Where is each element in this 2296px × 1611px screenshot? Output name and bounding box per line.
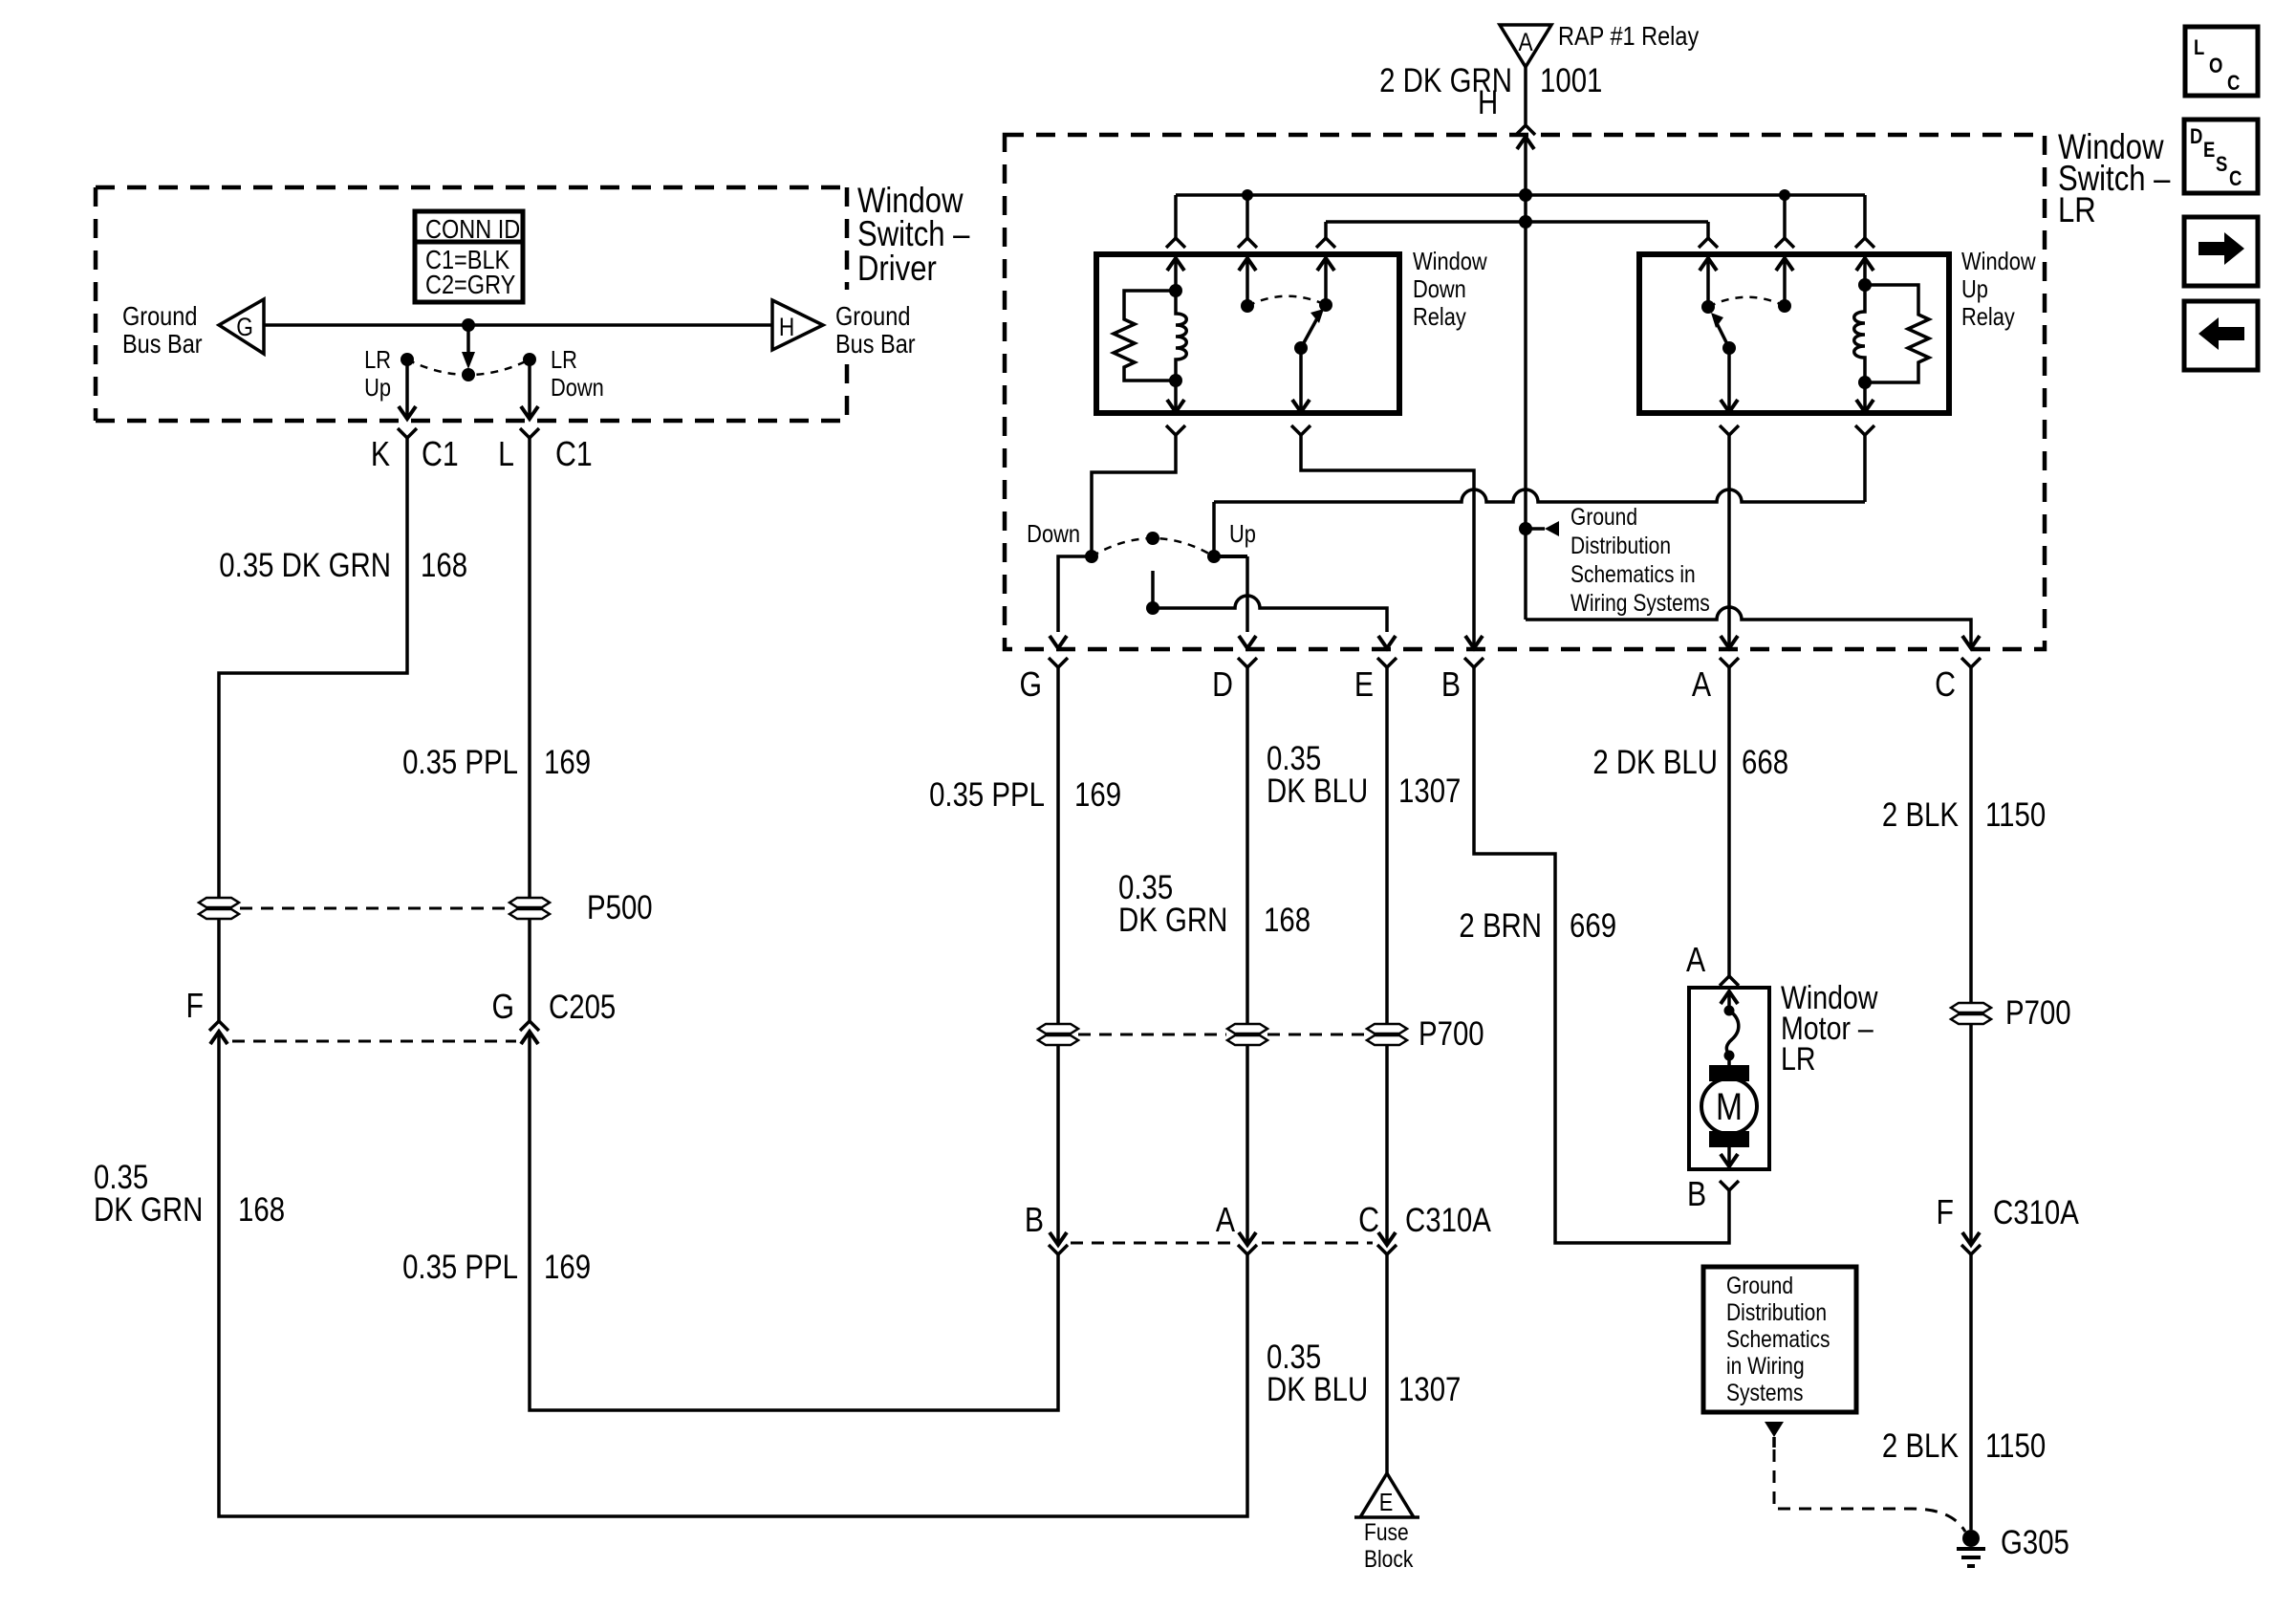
svg-text:LR: LR xyxy=(364,346,391,374)
svg-text:D: D xyxy=(2190,126,2202,149)
svg-text:0.35 PPL: 0.35 PPL xyxy=(402,744,518,781)
svg-text:O: O xyxy=(2209,55,2222,78)
svg-text:0.35 PPL: 0.35 PPL xyxy=(929,776,1045,814)
svg-text:1001: 1001 xyxy=(1540,62,1602,99)
svg-text:C: C xyxy=(1935,666,1956,705)
svg-text:F: F xyxy=(186,988,204,1026)
svg-text:H: H xyxy=(1478,84,1498,121)
svg-text:Up: Up xyxy=(364,374,391,402)
svg-text:Up: Up xyxy=(1961,275,1988,303)
svg-text:Ground: Ground xyxy=(835,302,910,331)
svg-text:1150: 1150 xyxy=(1985,796,2046,834)
svg-text:Driver: Driver xyxy=(857,250,937,289)
svg-text:CONN ID: CONN ID xyxy=(425,215,520,244)
svg-text:Distribution: Distribution xyxy=(1726,1298,1827,1325)
svg-text:C1: C1 xyxy=(555,436,593,474)
svg-text:A: A xyxy=(1518,28,1532,56)
svg-text:P700: P700 xyxy=(2005,994,2071,1032)
svg-text:169: 169 xyxy=(544,1249,591,1286)
svg-text:168: 168 xyxy=(1264,902,1310,939)
svg-text:Down: Down xyxy=(1413,275,1466,303)
svg-text:B: B xyxy=(1025,1202,1044,1240)
svg-text:G: G xyxy=(491,989,514,1027)
svg-text:LR: LR xyxy=(1781,1041,1815,1078)
svg-text:Ground: Ground xyxy=(1726,1272,1793,1298)
svg-text:A: A xyxy=(1216,1202,1236,1240)
svg-text:F: F xyxy=(1937,1194,1954,1232)
svg-text:Ground: Ground xyxy=(1570,503,1637,530)
svg-text:168: 168 xyxy=(238,1191,285,1229)
svg-text:E: E xyxy=(1354,666,1374,705)
svg-text:0.35 PPL: 0.35 PPL xyxy=(402,1249,518,1286)
svg-text:669: 669 xyxy=(1570,907,1616,945)
svg-text:668: 668 xyxy=(1742,744,1788,781)
svg-text:P500: P500 xyxy=(587,889,653,926)
svg-text:Bus Bar: Bus Bar xyxy=(122,330,203,359)
svg-text:A: A xyxy=(1692,666,1712,705)
svg-text:E: E xyxy=(1379,1489,1394,1516)
svg-text:K: K xyxy=(371,436,390,474)
svg-text:Schematics in: Schematics in xyxy=(1570,560,1696,587)
svg-text:C205: C205 xyxy=(549,989,616,1026)
svg-text:Fuse: Fuse xyxy=(1364,1518,1409,1545)
svg-text:LR: LR xyxy=(551,346,577,374)
svg-text:Systems: Systems xyxy=(1726,1379,1803,1405)
svg-text:1307: 1307 xyxy=(1398,773,1461,810)
svg-text:G: G xyxy=(1019,666,1042,705)
svg-text:DK GRN: DK GRN xyxy=(94,1191,203,1229)
svg-text:C: C xyxy=(2229,168,2242,191)
svg-text:P700: P700 xyxy=(1419,1015,1484,1053)
svg-text:Window: Window xyxy=(1413,248,1487,275)
svg-text:Ground: Ground xyxy=(122,302,197,331)
svg-text:G: G xyxy=(236,313,253,341)
svg-text:Relay: Relay xyxy=(1413,303,1466,331)
svg-text:LR: LR xyxy=(2058,191,2096,230)
svg-text:B: B xyxy=(1441,666,1461,705)
svg-text:Distribution: Distribution xyxy=(1570,532,1671,558)
svg-text:RAP #1 Relay: RAP #1 Relay xyxy=(1558,22,1699,51)
svg-text:0.35 DK GRN: 0.35 DK GRN xyxy=(219,547,391,584)
svg-text:Relay: Relay xyxy=(1961,303,2015,331)
svg-text:B: B xyxy=(1687,1176,1706,1214)
svg-text:C310A: C310A xyxy=(1993,1194,2079,1231)
svg-text:H: H xyxy=(779,313,794,341)
svg-text:E: E xyxy=(2203,140,2215,163)
svg-text:2 BRN: 2 BRN xyxy=(1459,907,1542,945)
svg-text:DK GRN: DK GRN xyxy=(1118,902,1227,939)
svg-text:C: C xyxy=(1358,1202,1379,1240)
svg-text:2 DK BLU: 2 DK BLU xyxy=(1592,744,1718,781)
svg-text:in Wiring: in Wiring xyxy=(1726,1352,1805,1379)
svg-text:DK BLU: DK BLU xyxy=(1267,773,1368,810)
svg-text:Up: Up xyxy=(1229,520,1256,548)
svg-text:Wiring Systems: Wiring Systems xyxy=(1570,589,1710,616)
svg-text:DK BLU: DK BLU xyxy=(1267,1371,1368,1408)
svg-text:169: 169 xyxy=(544,744,591,781)
svg-text:A: A xyxy=(1686,942,1706,980)
svg-text:L: L xyxy=(2194,37,2204,60)
svg-text:Down: Down xyxy=(551,374,604,402)
svg-text:Down: Down xyxy=(1027,520,1080,548)
svg-text:2 BLK: 2 BLK xyxy=(1882,796,1959,834)
svg-text:Block: Block xyxy=(1364,1545,1414,1572)
svg-text:168: 168 xyxy=(421,547,467,584)
svg-text:1150: 1150 xyxy=(1985,1427,2046,1465)
svg-text:L: L xyxy=(498,436,514,474)
svg-text:169: 169 xyxy=(1074,776,1121,814)
svg-text:C: C xyxy=(2227,73,2241,96)
svg-text:M: M xyxy=(1716,1085,1743,1127)
svg-text:Switch –: Switch – xyxy=(857,215,969,254)
svg-text:1307: 1307 xyxy=(1398,1371,1461,1408)
svg-text:Window: Window xyxy=(1961,248,2036,275)
svg-text:G305: G305 xyxy=(2001,1524,2069,1561)
svg-text:Bus Bar: Bus Bar xyxy=(835,330,916,359)
svg-text:C2=GRY: C2=GRY xyxy=(425,271,515,299)
svg-text:2 BLK: 2 BLK xyxy=(1882,1427,1959,1465)
svg-text:C310A: C310A xyxy=(1405,1202,1491,1239)
svg-text:D: D xyxy=(1212,666,1233,705)
svg-text:C1: C1 xyxy=(422,436,459,474)
svg-text:S: S xyxy=(2216,154,2227,177)
svg-text:Schematics: Schematics xyxy=(1726,1325,1830,1352)
